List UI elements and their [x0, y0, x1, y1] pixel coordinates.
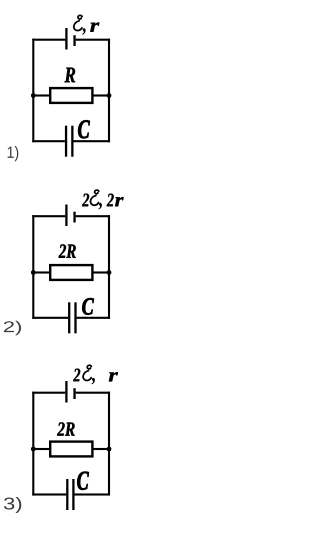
- battery cell 3 short electrode (negative): [73, 388, 75, 399]
- junction dot left circuit 3: [31, 447, 36, 452]
- wire top-right segment circuit 3: [76, 392, 110, 394]
- wire resistor stub left circuit 2: [32, 271, 50, 273]
- battery cell 2 long electrode (positive): [65, 205, 67, 227]
- wire left vertical circuit 1: [32, 39, 34, 143]
- wire bottom-left segment circuit 3: [32, 493, 66, 495]
- wire resistor stub left circuit 3: [32, 448, 50, 450]
- resistor box circuit 3: [50, 442, 92, 457]
- value label C of capacitor 2: [82, 298, 94, 315]
- junction dot right circuit 3: [107, 447, 112, 452]
- capacitor plate right circuit 3: [72, 479, 74, 510]
- wire bottom-right segment circuit 1: [74, 140, 111, 142]
- item number 3): [4, 497, 21, 513]
- wire left vertical circuit 2: [32, 215, 34, 319]
- wire bottom-left segment circuit 1: [32, 140, 65, 142]
- value label coefficient 2 of EMF 3: [73, 369, 80, 382]
- wire resistor stub right circuit 3: [93, 448, 110, 450]
- value label comma after EMF 2: [99, 203, 102, 210]
- resistor box circuit 2: [50, 265, 92, 280]
- wire bottom-right segment circuit 2: [77, 317, 110, 319]
- value label EMF symbol for source 3: [83, 365, 91, 380]
- wire top-left segment circuit 3: [32, 392, 65, 394]
- resistor box circuit 1: [50, 88, 92, 103]
- battery cell 2 short electrode (negative): [73, 212, 75, 223]
- junction dot left circuit 2: [31, 270, 36, 275]
- value label 2R of resistor 2: [59, 244, 76, 257]
- wire bottom-right segment circuit 3: [75, 493, 111, 495]
- value label C of capacitor 1: [78, 120, 90, 138]
- junction dot right circuit 2: [107, 270, 112, 275]
- wire resistor stub right circuit 2: [93, 271, 110, 273]
- wire right vertical circuit 1: [108, 39, 110, 143]
- value label EMF symbol for source 1: [74, 15, 82, 30]
- value label internal resistance r of source 1: [90, 23, 99, 32]
- value label 2R of resistor 3: [57, 422, 75, 435]
- wire top-left segment circuit 2: [32, 215, 65, 217]
- capacitor plate right circuit 2: [74, 302, 76, 333]
- value label R of resistor 1: [65, 68, 76, 83]
- capacitor plate right circuit 1: [71, 126, 73, 157]
- item number 1): [8, 146, 19, 161]
- item number 2): [4, 321, 21, 336]
- value label coefficient 2 of EMF 2: [82, 194, 89, 207]
- capacitor plate left circuit 3: [66, 479, 68, 510]
- wire resistor stub left circuit 1: [32, 94, 50, 96]
- wire resistor stub right circuit 1: [93, 94, 110, 96]
- wire top-right segment circuit 1: [76, 39, 110, 41]
- wire top-left segment circuit 1: [32, 39, 65, 41]
- capacitor plate left circuit 1: [65, 126, 67, 157]
- value label comma after EMF 3: [92, 378, 95, 385]
- battery cell 1 short electrode (negative): [73, 35, 75, 46]
- battery cell 3 long electrode (positive): [65, 381, 67, 403]
- value label coefficient 2 of r for source 2: [107, 194, 114, 207]
- value label internal resistance r of source 3: [109, 372, 118, 381]
- battery cell 1 long electrode (positive): [65, 28, 67, 50]
- value label EMF symbol for source 2: [90, 190, 98, 205]
- value label C of capacitor 3: [77, 472, 89, 490]
- wire top-right segment circuit 2: [76, 215, 110, 217]
- junction dot right circuit 1: [107, 93, 112, 98]
- wire left vertical circuit 3: [32, 392, 34, 496]
- value label internal resistance r of source 2: [115, 197, 124, 206]
- junction dot left circuit 1: [31, 93, 36, 98]
- wire right vertical circuit 2: [108, 215, 110, 319]
- wire bottom-left segment circuit 2: [32, 317, 68, 319]
- capacitor plate left circuit 2: [68, 302, 70, 333]
- wire right vertical circuit 3: [108, 392, 110, 496]
- value label comma after EMF 1: [82, 28, 85, 35]
